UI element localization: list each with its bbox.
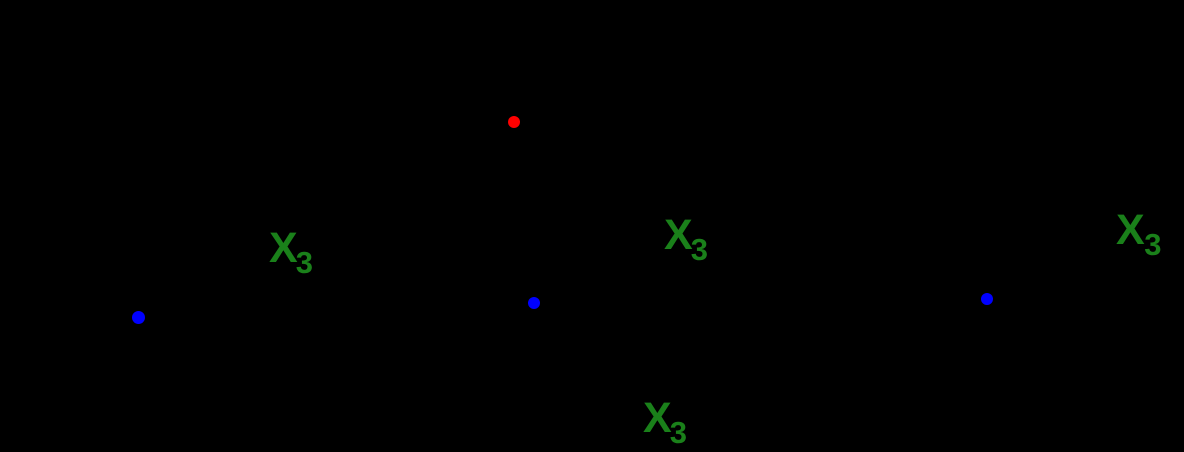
highlighted atom N1 (blue dot, molecule 1) [132, 311, 145, 324]
R-group label X3 (molecule 2, lower) [643, 397, 689, 440]
R-group label X3 (molecule 3) [1116, 209, 1162, 252]
highlighted atom O (red dot) [508, 116, 520, 128]
R-group label X3 (molecule 2, upper) [664, 214, 710, 257]
highlighted atom N2 (blue dot, molecule 2) [528, 297, 540, 309]
R-group label X3 (molecule 1) [269, 227, 315, 270]
highlighted atom N3 (blue dot, molecule 3) [981, 293, 993, 305]
